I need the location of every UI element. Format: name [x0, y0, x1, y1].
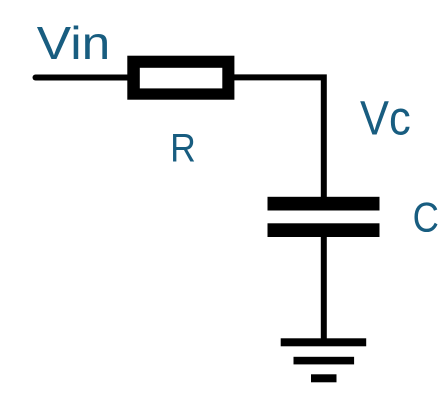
svg-text:C: C — [413, 194, 439, 241]
label Vin — [37, 17, 111, 69]
label R — [170, 125, 196, 170]
ground bar 2 — [294, 357, 355, 365]
svg-text:Vc: Vc — [360, 92, 411, 146]
ground bar 1 — [281, 338, 367, 346]
svg-text:Vin: Vin — [37, 17, 111, 69]
capacitor C top plate — [268, 197, 380, 211]
svg-text:R: R — [170, 125, 196, 170]
label C — [413, 194, 439, 241]
wire: capacitor to ground — [321, 235, 327, 341]
ground bar 3 — [311, 374, 337, 382]
label Vc — [360, 92, 411, 146]
wire: Vin input lead — [36, 75, 129, 81]
capacitor C bottom plate — [268, 223, 380, 237]
wire: resistor to node Vc corner and down to capacitor — [234, 77, 324, 200]
resistor R — [127, 56, 234, 100]
